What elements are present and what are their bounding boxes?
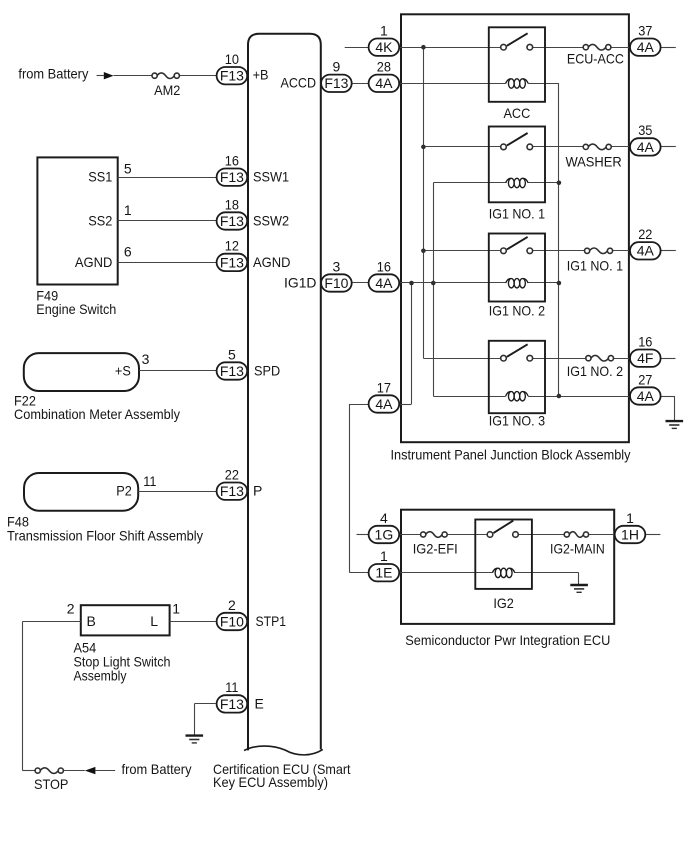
svg-text:IG1 NO. 2: IG1 NO. 2 [489,303,545,319]
svg-text:AM2: AM2 [154,82,180,98]
wire arrow to fuse AM2 [114,75,153,77]
svg-text:+S: +S [115,362,131,378]
coil feed branch vertical line [433,183,435,396]
svg-text:SPD: SPD [254,362,280,378]
F22 label [14,393,180,423]
wire fuse ECU-ACC to 4A37 [611,47,630,49]
svg-text:F13: F13 [220,68,244,84]
wire to STOP fuse [22,770,35,772]
svg-text:4K: 4K [375,39,393,55]
svg-text:ACCD: ACCD [281,75,317,91]
ground riser for IG2 coil [578,573,580,585]
connector F13 pin 9 ACCD [321,75,352,92]
wire A54 B to left vertical [22,621,80,623]
connector 4A pin 27 [630,387,661,404]
wire arrow to from Battery text [95,770,115,772]
wire IG1 NO.1 coil to coil bus [528,182,559,184]
wire left vertical down to STOP fuse [22,622,24,771]
Engine Switch F49 box [37,157,117,284]
connector 4A pin 35 [630,138,661,155]
fuse WASHER [583,144,611,150]
svg-text:from Battery: from Battery [122,761,192,777]
F49 label [36,287,116,317]
svg-text:2: 2 [228,597,236,613]
ground E (ECU) [186,736,204,743]
svg-text:1: 1 [124,202,132,218]
wire bus to IG1 NO.1 switch [423,146,500,148]
svg-text:27: 27 [638,371,652,387]
junction switch bus at 4K row [421,45,426,50]
svg-text:F13: F13 [220,363,244,379]
wire SS2 to F13 pin18 [118,220,217,222]
connector 4A pin 17 [369,395,400,412]
relay ACC switch contacts [501,33,533,50]
wire E ground riser vertical [194,704,196,735]
connector 4A pin 16 [369,274,400,291]
svg-text:4A: 4A [375,275,393,291]
Stop Light Switch Assembly A54 box [81,605,170,635]
relay IG2 switch contacts [487,521,518,538]
svg-text:P2: P2 [116,483,132,499]
fuse AM2 [152,73,179,79]
wire STOP fuse to arrow [63,770,85,772]
svg-text:16: 16 [225,153,239,169]
svg-text:IG1 NO. 1: IG1 NO. 1 [489,205,545,221]
svg-text:Key ECU Assembly): Key ECU Assembly) [213,774,328,790]
connector F13 pin 16 SSW1 [217,169,248,186]
svg-text:F13: F13 [220,696,244,712]
svg-text:Combination Meter Assembly: Combination Meter Assembly [14,406,180,422]
wire E pin to ground riser [194,703,216,705]
svg-text:Engine Switch: Engine Switch [36,301,116,317]
svg-text:4A: 4A [375,396,393,412]
battery feed arrow [104,72,114,79]
svg-text:IG1D: IG1D [284,274,317,290]
relay ACC coil [506,79,528,88]
svg-text:ECU-ACC: ECU-ACC [567,51,624,67]
connector 1G pin 4 [369,526,400,543]
connector 4A pin 22 [630,242,661,259]
svg-text:1E: 1E [375,565,392,581]
svg-text:Instrument Panel Junction Bloc: Instrument Panel Junction Block Assembly [391,447,631,463]
wire +S to F13 pin5 [139,370,217,372]
svg-text:4A: 4A [637,243,655,259]
svg-text:17: 17 [377,379,391,395]
Certification ECU (Smart Key ECU Assembly) body U1 [248,34,321,751]
svg-text:F13: F13 [220,483,244,499]
junction IG1D to 4A17 branch [409,281,414,286]
svg-text:F13: F13 [324,75,348,91]
wire 1G to fuse IG2-EFI [400,534,421,536]
wire IG2 switch to fuse IG2-MAIN [518,534,564,536]
svg-text:SS2: SS2 [88,212,112,228]
4F16 stub wire [661,358,676,360]
coil ground bus vertical line [558,83,560,396]
wire IG1 NO.1 coil left branch [433,182,506,184]
svg-text:22: 22 [225,467,239,483]
svg-text:F13: F13 [220,213,244,229]
svg-text:Semiconductor Pwr Integration: Semiconductor Pwr Integration ECU [405,632,610,648]
svg-text:4A: 4A [375,75,393,91]
wire IG2 coil to ground riser [515,572,579,574]
junction switch bus at IG1 NO.1 row [421,145,426,150]
wire 4A16 into block to IG1 NO.2 coil [399,282,506,284]
relay IG1 NO. 1 coil [506,178,528,187]
connector F10 pin 2 STP1 [217,613,248,630]
relay IG1 NO. 1 box [489,127,545,203]
wire fuse IG2-MAIN to 1H [588,534,614,536]
svg-text:F13: F13 [220,169,244,185]
svg-text:B: B [87,613,96,629]
wire 4A17 to left vertical [350,404,369,406]
svg-text:16: 16 [638,334,652,350]
connector 4K pin 1 [369,39,400,56]
svg-text:IG2: IG2 [493,595,514,611]
svg-text:4A: 4A [637,388,655,404]
wire ACCD F13 to 4A28 [352,83,369,85]
svg-text:P: P [253,483,262,499]
4A35 stub wire [661,146,676,148]
wire fuse IG1 NO.1 to 4A22 [612,250,630,252]
relay IG1 NO. 3 switch contacts [501,344,533,361]
svg-text:IG2-EFI: IG2-EFI [413,541,458,557]
wire fuse IG2-EFI to IG2 switch [447,534,487,536]
svg-text:1G: 1G [375,526,394,542]
fuse IG2-EFI [421,532,448,538]
svg-text:AGND: AGND [253,254,291,270]
relay IG1 NO. 2 box [489,234,545,302]
svg-text:1H: 1H [621,526,639,542]
svg-text:IG2-MAIN: IG2-MAIN [550,541,605,557]
Transmission Floor Shift Assembly F48 box [24,473,138,511]
svg-text:SS1: SS1 [88,169,112,185]
wire bus to IG1 NO.2 switch [423,250,500,252]
wire SS1 to F13 pin16 [118,177,217,179]
relay IG1 NO. 2 coil [506,279,528,288]
svg-text:1: 1 [380,548,388,564]
ground riser for 4A27 [674,396,676,420]
wire IG1 NO.3 switch to fuse IG1 NO.2 [533,358,586,360]
svg-text:5: 5 [124,160,132,176]
svg-text:SSW2: SSW2 [253,212,289,228]
Certification ECU torn-bottom wavy edge [244,746,323,755]
connector 4F pin 16 [630,350,661,367]
battery feed arrow bottom [85,767,96,774]
connector F13 pin 5 SPD [217,362,248,379]
svg-text:F10: F10 [220,613,244,629]
wire fuse WASHER to 4A35 [611,146,630,148]
connector F13 pin 12 AGND [217,254,248,271]
fuse IG2-MAIN [564,532,588,538]
svg-text:E: E [255,695,264,711]
connector 1H pin 1 [615,526,646,543]
connector F13 pin 18 SSW2 [217,212,248,229]
ground IG2 coil [570,585,588,592]
svg-text:1: 1 [172,600,180,616]
svg-text:ACC: ACC [503,105,530,121]
wire IG1 NO.1 switch to fuse WASHER [533,146,584,148]
svg-text:5: 5 [228,346,236,362]
fuse ECU-ACC [583,44,611,50]
4A37 stub wire [661,47,676,49]
wire ACC coil to coil bus [528,83,559,85]
wire vertical down to 1E row [349,404,351,573]
svg-text:12: 12 [225,238,239,254]
svg-text:4A: 4A [637,39,655,55]
connector 1E pin 1 [369,564,400,581]
fuse STOP [35,768,63,774]
svg-text:35: 35 [638,122,652,138]
connector F13 pin 22 P [217,483,248,500]
fuse IG1 NO. 2 [586,355,614,361]
svg-text:3: 3 [142,351,150,367]
wire vertical to 4A17 [399,404,411,406]
relay ACC box [489,27,545,102]
wire fuse IG1 NO.2 to 4F16 [613,358,630,360]
svg-text:28: 28 [377,59,391,75]
svg-text:2: 2 [67,600,75,616]
fuse IG1 NO. 1 [585,248,613,254]
A54 label [74,640,171,684]
svg-text:+B: +B [253,67,269,83]
svg-text:6: 6 [124,244,132,260]
svg-text:16: 16 [377,258,391,274]
wire 1E to IG2 coil [400,572,493,574]
Instrument Panel Junction Block Assembly box [401,14,629,442]
Semiconductor Pwr Integration ECU box [401,510,614,624]
4K stub wire [345,47,369,49]
svg-text:1: 1 [626,510,634,526]
svg-text:1: 1 [380,23,388,39]
svg-text:IG1 NO. 3: IG1 NO. 3 [489,412,545,428]
svg-text:F13: F13 [220,254,244,270]
wire battery arrow lead [97,75,105,77]
svg-text:L: L [150,613,158,629]
svg-text:4F: 4F [637,350,653,366]
junction coil bus at IG1 NO.3 [557,394,562,399]
svg-text:37: 37 [638,23,652,39]
relay IG1 NO. 1 switch contacts [501,133,533,150]
relay IG2 box [475,520,532,589]
wire coil branch to IG1 NO.3 coil [433,396,506,398]
svg-text:18: 18 [225,196,239,212]
svg-text:22: 22 [638,226,652,242]
wire L to F10 pin2 [170,621,216,623]
connector F13 pin 10 +B [217,67,248,84]
wire bus to IG1 NO.3 switch [423,358,500,360]
svg-text:4A: 4A [637,139,655,155]
svg-text:11: 11 [143,473,156,489]
wire AGND to F13 pin12 [118,262,217,264]
F48 label [7,513,203,543]
wire IG1 NO.3 coil to 4A27 [528,396,630,398]
wire P2 to F13 pin22 [138,491,217,493]
connector 4A pin 28 [369,75,400,92]
junction switch bus at IG1 NO.2 row [421,249,426,254]
svg-text:IG1 NO. 1: IG1 NO. 1 [567,258,623,274]
svg-text:SSW1: SSW1 [253,169,289,185]
svg-text:from Battery: from Battery [18,66,88,82]
wire IG1D F10 to 4A16 [352,282,369,284]
wire IG1 NO.2 coil to coil bus [528,282,559,284]
junction coil bus at IG1 NO.1 [557,181,562,186]
svg-text:STOP: STOP [34,776,69,792]
connector 4A pin 37 [630,39,661,56]
relay IG1 NO. 3 coil [506,392,528,401]
Combination Meter Assembly F22 box [24,353,139,391]
junction IG1D to coil branch [431,281,436,286]
wire IG1 NO.2 switch to fuse IG1 NO.1 [533,250,585,252]
svg-text:F10: F10 [324,275,348,291]
connector F10 pin 3 IG1D [321,274,352,291]
wire 4A27 to ground riser [661,396,674,398]
svg-text:11: 11 [225,679,238,695]
wire 4K to ACC switch [399,47,500,49]
wire ACC switch to fuse ECU-ACC [533,47,584,49]
svg-text:Assembly: Assembly [74,668,127,684]
wire 4A28 into junction block to ACC coil [399,83,506,85]
svg-text:STP1: STP1 [256,613,287,629]
junction coil bus at IG1 NO.2 [557,281,562,286]
switch feed bus vertical line [423,47,425,358]
relay IG1 NO. 2 switch contacts [501,237,533,254]
wire to 1E oval [350,572,369,574]
svg-text:4: 4 [380,510,388,526]
Certification ECU label [213,761,351,790]
svg-text:9: 9 [333,59,341,75]
relay IG1 NO. 3 box [489,341,545,413]
svg-text:IG1 NO. 2: IG1 NO. 2 [567,363,623,379]
1G stub wire [357,534,369,536]
4A22 stub wire [661,250,676,252]
ground IG1 relay coils (4A27) [666,421,684,428]
relay IG2 coil [492,568,514,577]
svg-text:WASHER: WASHER [565,153,621,169]
svg-text:Transmission Floor Shift Assem: Transmission Floor Shift Assembly [7,527,203,543]
svg-text:AGND: AGND [75,254,113,270]
wire AM2 to F13 pin10 [179,75,217,77]
svg-text:10: 10 [225,51,239,67]
wire IG1D branch down to 4A17 vertical [411,283,413,404]
connector F13 pin 11 E [217,695,248,712]
1H stub wire [645,534,660,536]
svg-text:3: 3 [333,258,341,274]
